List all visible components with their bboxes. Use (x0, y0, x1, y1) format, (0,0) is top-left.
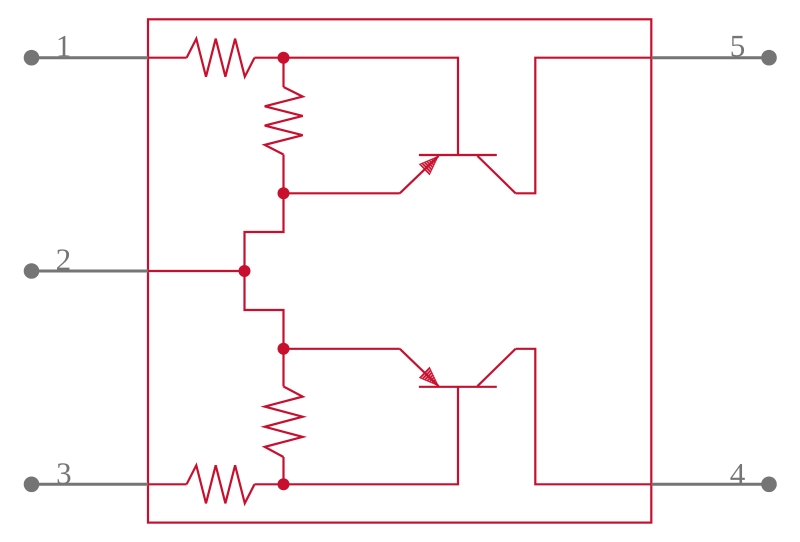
node D junction dot (278, 478, 290, 490)
pin 2 label (57, 249, 69, 270)
node E junction dot (239, 265, 251, 277)
wire Q2 collector to pin 4 (516, 349, 652, 485)
wire R2 to node B (282, 155, 284, 194)
wire node E down to node C (245, 271, 284, 349)
wire R4 to node D (282, 457, 284, 484)
wire node E up to node B (245, 193, 284, 271)
wire pin3 to R3 (148, 483, 187, 485)
pin 1 terminal dot (24, 50, 40, 66)
pin 4 terminal dot (761, 477, 777, 493)
transistor Q1 collector (477, 156, 515, 193)
node C junction dot (278, 343, 290, 355)
wire pin2 to node E (148, 270, 245, 272)
resistor R2 (265, 87, 303, 155)
resistor R3 (187, 465, 255, 503)
transistor Q1 emitter arrow (420, 156, 439, 174)
wire node A to R2 (282, 58, 284, 87)
pin 5 wire (651, 56, 769, 59)
pin 5 terminal dot (761, 50, 777, 66)
pin 3 terminal dot (24, 477, 40, 493)
transistor Q1 emitter (400, 156, 439, 193)
pin 4 label (730, 464, 744, 484)
transistor Q2 emitter (400, 349, 439, 386)
wire Q1 collector to pin 5 (516, 58, 652, 194)
transistor Q1 base bar (419, 154, 497, 156)
pin 2 wire (32, 270, 150, 273)
pin 4 wire (651, 483, 769, 486)
wire node B to Q1 emitter (284, 192, 400, 194)
wire R3 to Q2 base (255, 387, 459, 485)
node A junction dot (278, 52, 290, 64)
wire node C to Q2 emitter (284, 348, 400, 350)
resistor R4 (265, 387, 303, 458)
component body outline (148, 19, 651, 522)
pin 3 label (58, 463, 71, 484)
pin 1 wire (32, 56, 149, 59)
pin 1 label (59, 36, 70, 56)
transistor Q2 emitter arrow (420, 367, 439, 385)
transistor Q2 collector (477, 349, 515, 386)
wire node C to R4 (282, 349, 284, 387)
pin 5 label (732, 36, 745, 57)
pin 2 terminal dot (24, 263, 40, 279)
wire pin1 to R1 (148, 57, 187, 59)
resistor R1 (187, 39, 255, 77)
wire R1 to Q1 base (255, 58, 459, 155)
pin 3 wire (32, 483, 149, 486)
node B junction dot (278, 187, 290, 199)
transistor Q2 base bar (419, 386, 497, 388)
